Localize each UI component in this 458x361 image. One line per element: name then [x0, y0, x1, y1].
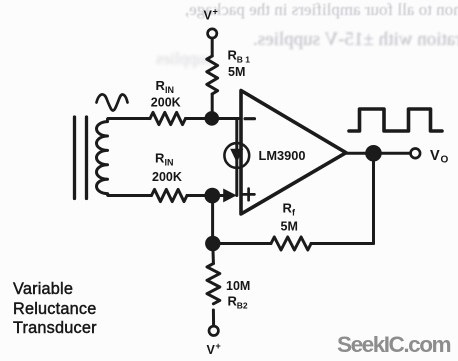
resistor RIN1 200K — [150, 112, 185, 124]
junction node: output — [367, 147, 381, 161]
square wave output symbol — [349, 109, 442, 131]
wire: coil bottom to RIN2 — [108, 194, 152, 197]
wire: op-amp output — [346, 152, 411, 155]
watermark — [337, 332, 450, 358]
wire: plus junction down to feedback junction — [211, 196, 214, 244]
wire: output down to feedback — [372, 153, 375, 243]
resistor RB2 10M — [207, 264, 220, 304]
svg-text:5M: 5M — [228, 65, 245, 79]
svg-text:+: + — [213, 7, 218, 17]
bleed-through mirrored text line 1 — [185, 0, 458, 20]
resistor Rf 5M — [271, 237, 311, 250]
op-amp U1 triangle — [241, 91, 346, 215]
svg-text:R: R — [155, 151, 165, 166]
bleed-through faint fragment — [156, 49, 212, 69]
current source arrow — [230, 149, 243, 163]
core bar right — [85, 117, 88, 199]
current mirror wire (vertical through source) — [235, 119, 238, 196]
svg-text:B 1: B 1 — [237, 55, 251, 65]
svg-text:O: O — [441, 155, 449, 166]
svg-text:200K: 200K — [151, 96, 181, 110]
bleed-through mirrored text line 2 — [253, 29, 458, 51]
sine wave source symbol — [97, 94, 128, 110]
svg-text:f: f — [292, 208, 296, 218]
svg-text:V: V — [430, 148, 440, 164]
wire: Rf to output vertical — [311, 242, 374, 245]
svg-text:200K: 200K — [152, 170, 182, 184]
svg-text:B2: B2 — [237, 301, 248, 311]
wire: RIN1 to op-amp minus input — [186, 117, 242, 120]
wire: feedback junction to Rf — [213, 242, 271, 245]
svg-text:V: V — [204, 9, 213, 23]
resistor RIN2 200K — [152, 189, 187, 201]
caption — [13, 280, 97, 339]
output terminal ring — [411, 149, 421, 159]
plus input symbol — [243, 189, 255, 201]
wire: RB1 to minus rail junction — [211, 94, 214, 119]
current source circle of LM3900 — [224, 143, 249, 168]
svg-text:R: R — [156, 78, 166, 93]
minus input symbol — [245, 117, 255, 120]
junction node: minus rail — [206, 113, 218, 125]
wire: RB2 to bottom V+ terminal — [212, 310, 215, 326]
svg-text:V: V — [207, 343, 216, 357]
V+ terminal bottom — [209, 326, 218, 335]
V+ terminal top — [208, 29, 217, 38]
wire: coil top to RIN1 — [108, 117, 150, 120]
wire: RIN2 to plus arrowhead — [187, 194, 224, 197]
junction node: feedback/RB2 — [207, 237, 219, 249]
core bar left — [73, 117, 76, 199]
svg-text:5M: 5M — [281, 220, 298, 234]
plus input arrowhead — [223, 189, 237, 203]
svg-text:IN: IN — [165, 158, 174, 168]
svg-text:LM3900: LM3900 — [259, 148, 306, 163]
transducer coil L1 — [96, 119, 110, 196]
svg-text:R: R — [283, 201, 293, 216]
svg-text:10M: 10M — [226, 279, 250, 293]
svg-text:IN: IN — [165, 85, 174, 95]
wire: V+ to RB1 — [211, 38, 214, 56]
junction node: plus rail — [206, 189, 219, 202]
wire: feedback junction down to RB2 — [211, 244, 215, 264]
resistor RB1 5M — [207, 56, 218, 94]
svg-text:+: + — [216, 341, 221, 351]
